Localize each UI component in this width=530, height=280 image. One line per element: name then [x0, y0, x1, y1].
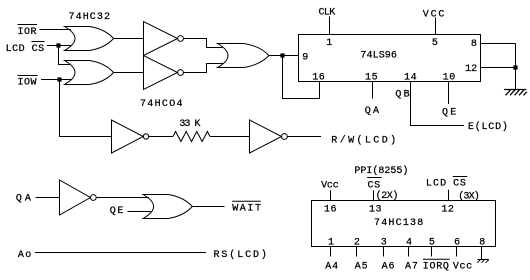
wire U2B output step up to U1C input: [183, 64, 223, 73]
wire IOW to U1B input: [41, 79, 71, 81]
wire U1C output to 74LS96 pin 9: [269, 55, 299, 57]
inverter U2C 74HCO4: [112, 120, 149, 153]
svg-text:8: 8: [471, 39, 477, 50]
junction dot on LCD CS line: [56, 43, 60, 47]
wire QE to U1D input: [128, 211, 152, 213]
wire IOR to U1A input: [40, 29, 72, 31]
IC U4 74HC138 body: [312, 201, 496, 247]
wire U1D output to WAIT: [192, 206, 224, 208]
wire U4 pin 4 stub to A7: [408, 247, 410, 257]
svg-text:IOR: IOR: [18, 27, 38, 38]
svg-text:9: 9: [302, 53, 308, 64]
wire U4 pin 1 stub to A4: [330, 247, 332, 257]
svg-text:QA: QA: [365, 106, 381, 117]
svg-text:A4: A4: [325, 262, 339, 273]
svg-text:LCD: LCD: [426, 179, 447, 190]
wire LCD CS junction down to U1B input: [59, 46, 72, 65]
svg-text:QE: QE: [110, 206, 125, 217]
wire CS stub to U4 pin 13: [373, 190, 375, 200]
svg-text:4: 4: [406, 238, 412, 249]
wire U2D output to R/W(LCD): [287, 136, 321, 138]
wire VCC stub to pin 5: [435, 18, 437, 35]
svg-text:12: 12: [441, 205, 454, 216]
resistor R1 33K: [173, 132, 210, 142]
svg-text:A5: A5: [355, 262, 369, 273]
wire resistor R1 to inverter U2D: [210, 136, 250, 138]
svg-text:33 K: 33 K: [179, 119, 200, 130]
wire U4 pin 3 stub to A6: [383, 247, 385, 257]
wire U4 pin 2 stub to A5: [356, 247, 358, 257]
IC U3 74LS96 body: [299, 35, 481, 82]
wire pin 10 stub to QE: [448, 82, 450, 105]
or-gate U1C 74HC32: [218, 44, 270, 68]
svg-text:74HC32: 74HC32: [69, 12, 112, 23]
ground symbol (chassis) right of U3: [504, 90, 527, 96]
node WAIT (active low): [232, 201, 262, 214]
svg-text:6: 6: [454, 238, 460, 249]
wire U1A output to inverter U2A: [114, 38, 144, 40]
svg-text:R/W(LCD): R/W(LCD): [331, 134, 398, 146]
inverter U2B 74HCO4: [144, 56, 184, 90]
node IORQ (active low): [423, 259, 450, 272]
svg-text:LCD CS: LCD CS: [6, 44, 45, 55]
node LCD CS (active-low chip select): [6, 42, 45, 56]
wire U2A output step down to U1C input: [183, 39, 222, 48]
svg-text:Vcc: Vcc: [321, 180, 339, 191]
node LCD CS (U4 pin 12, active low): [426, 177, 467, 190]
svg-text:PPI(8255): PPI(8255): [354, 165, 408, 177]
svg-text:IORQ: IORQ: [423, 262, 450, 273]
svg-text:5: 5: [432, 38, 438, 49]
wire CLK stub to pin 1: [329, 17, 331, 35]
node IOR (active-low input): [18, 25, 38, 39]
or-gate U1B 74HC32: [65, 61, 114, 85]
svg-text:13: 13: [369, 205, 382, 216]
svg-text:16: 16: [312, 72, 325, 83]
wire U4 pin 8 stub to ground: [481, 247, 483, 260]
wire U1B output to inverter U2B: [114, 72, 144, 74]
svg-text:RS(LCD): RS(LCD): [214, 249, 269, 261]
junction dot at U1C output node: [280, 53, 284, 57]
wire pin 15 stub to QA: [372, 82, 374, 99]
wire feedback node down and to pin 16: [283, 56, 320, 99]
svg-text:QE: QE: [442, 108, 458, 119]
svg-text:74HCO4: 74HCO4: [140, 99, 184, 110]
or-gate U1D 74HC32: [143, 195, 192, 219]
wire U2E output to U1D input: [96, 197, 149, 199]
svg-text:74HC138: 74HC138: [374, 218, 424, 229]
wire QA to inverter U2E: [36, 197, 60, 199]
wire pin 8 to ground rail: [481, 43, 516, 45]
inverter U2E 74HCO4: [60, 180, 97, 215]
svg-text:CS: CS: [453, 179, 467, 190]
svg-text:CLK: CLK: [319, 8, 336, 19]
wire LCD CS stub to U4 pin 12: [448, 190, 450, 201]
svg-text:15: 15: [365, 72, 378, 83]
svg-text:A6: A6: [382, 262, 396, 273]
svg-text:16: 16: [324, 205, 337, 216]
node IOW (active-low input): [18, 76, 38, 89]
svg-text:QA: QA: [16, 193, 34, 204]
ground symbol at U4 pin 8: [477, 260, 489, 263]
junction dot pin 12 / ground rail: [513, 65, 517, 69]
svg-text:10: 10: [443, 72, 456, 83]
inverter U2A 74HCO4: [144, 22, 184, 56]
wire Vcc stub to U4 pin 16: [330, 190, 332, 200]
wire pin 14 down and right to E(LCD): [411, 82, 465, 126]
wire IOW junction down to inverter U2C input: [60, 80, 112, 137]
svg-text:CS: CS: [368, 180, 381, 191]
svg-text:12: 12: [465, 64, 477, 75]
wire ground rail down: [515, 44, 517, 90]
svg-text:A7: A7: [405, 262, 419, 273]
svg-text:Ao: Ao: [18, 250, 33, 261]
svg-text:1: 1: [326, 38, 332, 49]
svg-text:QB: QB: [395, 90, 411, 101]
wire U2C output to resistor R1: [149, 136, 173, 138]
wire U4 pin 5 stub to IORQ: [431, 247, 433, 257]
svg-text:E(LCD): E(LCD): [468, 121, 509, 133]
wire Ao to RS(LCD): [35, 252, 206, 254]
svg-text:Vcc: Vcc: [453, 262, 473, 273]
node CS PPI (U4 pin 13, active low): [367, 178, 382, 192]
svg-text:IOW: IOW: [18, 78, 38, 89]
wire pin 12 to ground rail: [481, 67, 516, 69]
svg-text:74LS96: 74LS96: [360, 51, 397, 62]
svg-text:1: 1: [328, 238, 334, 249]
inverter U2D 74HCO4: [250, 120, 288, 153]
or-gate U1A 74HC32: [65, 27, 114, 51]
svg-text:8: 8: [479, 238, 485, 249]
wire LCD CS to U1A input: [47, 45, 71, 47]
wire U4 pin 6 stub to Vcc: [456, 247, 458, 257]
svg-text:WAIT: WAIT: [232, 204, 262, 215]
junction dot on IOW line: [57, 77, 61, 81]
svg-text:VCC: VCC: [423, 9, 446, 20]
